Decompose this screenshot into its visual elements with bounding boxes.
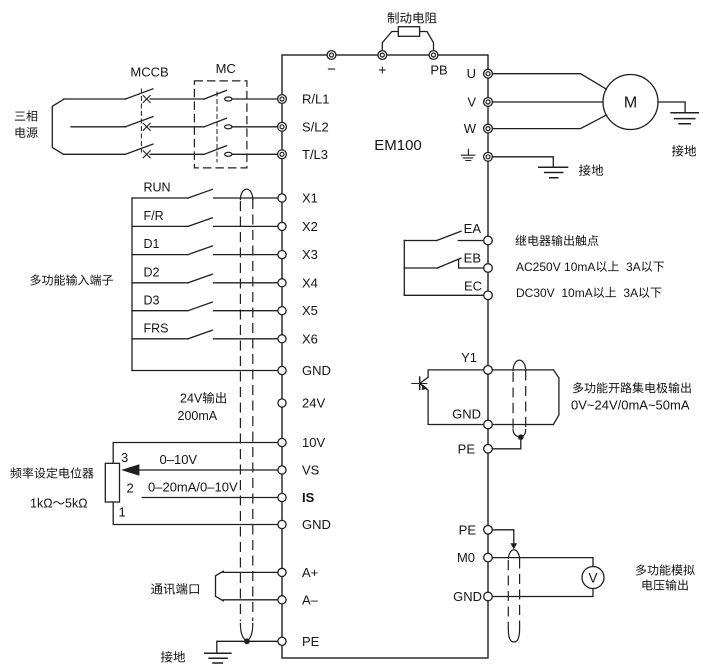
svg-text:MC: MC: [216, 61, 236, 76]
terminal VS: [278, 466, 286, 474]
MC contactor dashed box: [194, 81, 247, 168]
label 多功能开路集电极输出: [573, 382, 691, 393]
three-phase source bracket: [52, 100, 63, 155]
wire MC to R/L1: [232, 98, 278, 100]
wire PE to ground: [217, 641, 278, 653]
terminal X3: [278, 251, 286, 259]
switch RUN: [132, 181, 278, 199]
label 电压输出: [643, 579, 688, 590]
terminal GND digital: [278, 366, 286, 374]
inverter main box EM100: [282, 55, 488, 658]
svg-text:0–20mA/0–10V: 0–20mA/0–10V: [148, 480, 238, 495]
ground symbol below earth terminal: [539, 167, 568, 177]
svg-text:F/R: F/R: [144, 209, 164, 223]
shielded cable left: bottom convergence to PE: [240, 624, 252, 642]
terminal EA: [484, 236, 493, 245]
wire MC to S/L2: [232, 126, 278, 128]
terminal 24V: [278, 399, 286, 407]
svg-text:D1: D1: [144, 237, 160, 251]
svg-text:D2: D2: [144, 265, 160, 279]
wire 10V to potentiometer top: [113, 443, 277, 464]
svg-text:M0: M0: [457, 550, 475, 565]
terminal A-: [278, 596, 286, 604]
svg-text:2: 2: [127, 481, 134, 496]
svg-text:PE: PE: [458, 441, 476, 456]
shielded cable Y1: dashed shield lines: [512, 372, 514, 430]
relay contact EB: [404, 258, 483, 268]
svg-text:EM100: EM100: [374, 137, 422, 154]
svg-text:PE: PE: [302, 634, 320, 649]
braking resistor lead left: [382, 32, 398, 51]
braking resistor lead right: [420, 32, 434, 51]
label 制动电阻: [388, 12, 437, 23]
shielded cable M0: dashed shield lines: [507, 560, 509, 629]
switch D1: [132, 237, 278, 255]
switch F/R: [132, 209, 278, 227]
ground symbol bottom left: [205, 653, 231, 663]
wire phase R to MCCB: [64, 98, 126, 100]
terminal U: [484, 69, 493, 78]
svg-text:X2: X2: [302, 219, 318, 234]
open collector transistor Q1: [412, 370, 484, 425]
wire MCCB to MC phase S: [150, 126, 204, 128]
svg-text:T/L3: T/L3: [302, 147, 328, 162]
label 多功能输入端子: [30, 274, 113, 285]
terminal W: [484, 124, 493, 133]
svg-text:EA: EA: [464, 221, 482, 236]
svg-text:R/L1: R/L1: [302, 92, 329, 107]
svg-text:5kΩ: 5kΩ: [65, 497, 88, 511]
MCCB mechanical linkage: [140, 89, 142, 152]
switch FRS: [132, 322, 278, 339]
terminal GND lower: [484, 592, 493, 601]
svg-text:GND: GND: [452, 406, 481, 421]
terminal GND right: [484, 420, 493, 429]
shielded cable Y1: bottom convergence: [513, 430, 526, 438]
svg-text:U: U: [467, 66, 476, 81]
wire phase T to MCCB: [64, 153, 126, 155]
svg-text:EB: EB: [464, 251, 481, 266]
braking resistor body: [398, 27, 419, 37]
wire GND lower to voltmeter: [492, 589, 593, 597]
wire motor to ground: [658, 102, 685, 113]
label 三相: [15, 110, 37, 121]
terminal X5: [278, 307, 286, 315]
wire phase S to MCCB: [71, 126, 125, 128]
label DC30V rating: [516, 286, 661, 300]
svg-text:Y1: Y1: [461, 350, 477, 365]
wire V to motor: [492, 101, 603, 103]
svg-text:GND: GND: [453, 589, 482, 604]
wire shield to PE right: [492, 437, 520, 449]
wire U to motor: [492, 74, 606, 90]
svg-text:PE: PE: [459, 523, 477, 538]
terminal X1: [278, 194, 286, 202]
svg-text:200mA: 200mA: [178, 409, 218, 423]
terminal plus: [378, 51, 387, 60]
label 多功能模拟: [636, 564, 695, 575]
shielded cable M0: bottom U: [508, 629, 519, 642]
svg-text:MCCB: MCCB: [130, 65, 168, 80]
wire Y1 to bracket: [492, 369, 553, 371]
shielded cable left: dashed shield lines: [239, 201, 241, 621]
svg-text:1: 1: [119, 505, 126, 520]
label 24V输出: [180, 392, 226, 406]
terminal Y1: [484, 366, 493, 375]
wire MCCB to MC phase R: [150, 98, 204, 100]
svg-text:IS: IS: [302, 490, 315, 505]
svg-text:V: V: [467, 95, 476, 110]
shielded cable M0: top arc: [508, 550, 519, 559]
label 接地 mid: [579, 164, 603, 176]
terminal A+: [278, 568, 286, 576]
wire A minus: [223, 599, 277, 601]
label 电源: [16, 127, 38, 138]
terminal IS: [278, 493, 286, 501]
svg-text:3: 3: [121, 450, 128, 465]
terminal PE right: [484, 445, 493, 454]
svg-text:3A: 3A: [626, 260, 641, 274]
svg-text:A+: A+: [302, 565, 318, 580]
svg-text:RUN: RUN: [144, 181, 171, 195]
terminal X2: [278, 222, 286, 230]
ground symbol inside box at earth terminal: [461, 149, 474, 160]
svg-text:A–: A–: [302, 592, 319, 607]
terminal M0: [484, 553, 493, 562]
terminal S/L2: [278, 122, 287, 131]
label 通讯端口: [151, 583, 199, 595]
terminal T/L3: [278, 150, 287, 159]
label 接地 motor: [672, 145, 696, 157]
terminal R/L1: [278, 95, 287, 104]
terminal minus: [327, 51, 336, 60]
svg-text:+: +: [378, 62, 386, 78]
ground symbol right of motor: [671, 113, 698, 124]
shield arrow dot M0 cable: [511, 543, 518, 549]
terminal X4: [278, 279, 286, 287]
shield to PE junction dot: [244, 638, 250, 644]
svg-text:M: M: [624, 95, 637, 112]
wire PE lower to shield arrow: [492, 530, 513, 544]
terminal 10V: [278, 438, 286, 446]
label AC250V rating: [516, 260, 664, 274]
label 继电器输出触点: [515, 235, 598, 246]
svg-text:X5: X5: [302, 303, 318, 318]
relay wire EC: [404, 294, 483, 296]
svg-text:X4: X4: [302, 275, 318, 290]
terminal EB: [484, 264, 493, 273]
wire W to motor: [492, 115, 606, 129]
terminal PB: [429, 51, 438, 60]
label 接地 bottom-left: [161, 651, 185, 663]
wire MCCB to MC phase T: [150, 153, 204, 155]
wire earth terminal to ground: [492, 157, 553, 168]
svg-text:−: −: [327, 61, 336, 78]
wire IS: [142, 497, 277, 499]
wire potentiometer bottom to GND: [113, 502, 277, 525]
wire MC to T/L3: [232, 153, 278, 155]
voltmeter V: [582, 567, 604, 589]
MC mechanical linkage: [216, 92, 218, 162]
svg-text:PB: PB: [430, 62, 447, 77]
svg-text:FRS: FRS: [144, 322, 169, 336]
terminal earth: [484, 152, 493, 161]
comm port bracket: [216, 571, 224, 601]
wiper wire VS with arrow: [138, 469, 278, 471]
relay common bus: [403, 241, 405, 296]
terminal X6: [278, 335, 286, 343]
svg-text:X1: X1: [302, 191, 318, 206]
svg-text:W: W: [464, 121, 477, 136]
shielded cable Y1: top arc: [513, 360, 526, 370]
switch D2: [132, 265, 278, 283]
terminal EC: [484, 291, 493, 300]
svg-text:GND: GND: [302, 517, 331, 532]
svg-text:GND: GND: [302, 363, 331, 378]
svg-text:0V~24V/0mA~50mA: 0V~24V/0mA~50mA: [571, 398, 690, 413]
relay contact EA: [404, 231, 483, 240]
svg-text:X6: X6: [302, 331, 318, 346]
svg-text:24V: 24V: [180, 392, 203, 406]
wire A+: [223, 571, 277, 573]
shield Y1 junction dot: [518, 434, 524, 440]
shielded cable left: top arc: [240, 189, 252, 199]
terminal V: [484, 98, 493, 107]
terminal PE lower: [484, 526, 493, 535]
label 1kΩ～5kΩ: [30, 497, 88, 511]
svg-text:VS: VS: [302, 463, 320, 478]
output bracket Y1/GND: [553, 370, 559, 425]
svg-text:EC: EC: [464, 279, 482, 294]
terminal PE left: [278, 637, 286, 645]
MC contact phase T: [204, 146, 232, 157]
input switch bus: [131, 198, 133, 371]
svg-text:AC250V 10mA: AC250V 10mA: [516, 260, 595, 274]
switch D3: [132, 294, 278, 311]
svg-text:X3: X3: [302, 247, 318, 262]
label 频率设定电位器: [10, 467, 93, 478]
svg-text:24V: 24V: [302, 396, 325, 411]
wire bus to GND terminal: [132, 370, 278, 372]
svg-text:0–10V: 0–10V: [160, 452, 198, 467]
wire GND to bracket: [492, 424, 553, 426]
svg-text:1kΩ: 1kΩ: [30, 497, 53, 511]
svg-text:DC30V 10mA: DC30V 10mA: [516, 286, 593, 300]
potentiometer body: [105, 463, 119, 502]
MC contact phase S: [204, 118, 232, 129]
svg-text:S/L2: S/L2: [302, 119, 329, 134]
svg-text:3A: 3A: [623, 286, 638, 300]
svg-text:D3: D3: [144, 294, 160, 308]
terminal GND analog: [278, 520, 286, 528]
svg-text:V: V: [588, 570, 597, 585]
MC contact phase R: [204, 90, 232, 101]
motor M: [603, 75, 658, 130]
svg-text:10V: 10V: [302, 435, 325, 450]
wire M0 to voltmeter: [492, 558, 593, 567]
